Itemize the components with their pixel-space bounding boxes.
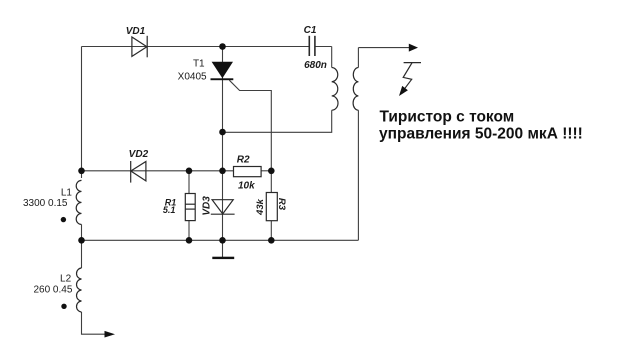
- svg-text:R2: R2: [237, 155, 250, 166]
- svg-text:43k: 43k: [255, 198, 266, 216]
- diode VD1: [132, 36, 147, 58]
- svg-text:R3: R3: [276, 198, 287, 211]
- capacitor C1: [309, 36, 315, 56]
- svg-text:5.1: 5.1: [163, 205, 176, 215]
- resistor R1: [185, 194, 195, 221]
- wire: top rail left of C1: [82, 46, 310, 48]
- wire: VD3 column: [222, 132, 224, 240]
- svg-text:X0405: X0405: [178, 72, 207, 83]
- transformer primary winding: [332, 68, 338, 111]
- svg-text:VD3: VD3: [201, 196, 212, 216]
- node: left rail / bottom rail: [78, 237, 85, 244]
- wire: middle rail left of R2: [82, 170, 234, 172]
- ground lead: [222, 240, 224, 257]
- svg-text:260 0.45: 260 0.45: [33, 285, 72, 296]
- wire: middle rail right of R2: [261, 170, 271, 172]
- wire: left rail upper segment: [81, 47, 83, 179]
- wire: top rail right of C1: [315, 46, 332, 48]
- wire: R3 leads: [270, 171, 272, 193]
- spark gap symbol (lightning): [403, 63, 421, 91]
- node: R3 top: [268, 168, 275, 175]
- wire: cathode node to transformer primary bottom: [223, 110, 332, 132]
- node: R1 bottom: [186, 237, 193, 244]
- svg-text:L2: L2: [60, 273, 72, 284]
- node: VD3 top: [219, 168, 226, 175]
- svg-text:T1: T1: [193, 58, 205, 69]
- wire: primary top lead: [331, 47, 333, 68]
- inductor L1: [76, 180, 81, 224]
- node: left rail / middle rail: [78, 168, 85, 175]
- svg-text:Тиристор с током: Тиристор с током: [380, 108, 515, 125]
- wire: spark output line: [358, 47, 409, 49]
- wire: secondary bottom lead to bottom rail: [357, 110, 359, 240]
- svg-text:C1: C1: [304, 25, 317, 36]
- svg-text:VD2: VD2: [129, 149, 149, 160]
- arrow: spark output: [409, 44, 418, 52]
- wire: thyristor gate: [229, 80, 271, 171]
- svg-text:3300 0.15: 3300 0.15: [23, 198, 68, 209]
- resistor R3: [266, 193, 277, 221]
- node: thyristor anode / top rail: [219, 43, 226, 50]
- transformer secondary winding: [353, 68, 358, 111]
- svg-text:10k: 10k: [238, 180, 255, 191]
- wire: left rail between L1 and L2: [81, 225, 83, 269]
- svg-text:680n: 680n: [304, 60, 327, 71]
- svg-text:VD1: VD1: [126, 26, 146, 37]
- polarity dot L2: [61, 304, 66, 309]
- svg-text:управления 50-200 мкА !!!!: управления 50-200 мкА !!!!: [379, 125, 583, 142]
- wire: left rail below L2 with corner: [82, 312, 105, 334]
- resistor R2: [234, 167, 262, 177]
- node: ground junction: [219, 237, 226, 244]
- node: R1 top: [186, 168, 193, 175]
- arrow: mains connection: [105, 331, 116, 338]
- zener diode VD3: [211, 200, 235, 215]
- ground: [212, 257, 234, 259]
- diode VD2: [131, 161, 146, 183]
- wire: secondary top lead: [357, 48, 359, 68]
- wire: bottom rail: [82, 239, 359, 241]
- node: R3 bottom: [268, 237, 275, 244]
- thyristor T1 body: [211, 62, 234, 80]
- polarity dot L1: [61, 217, 66, 222]
- inductor L2: [77, 268, 82, 312]
- wire: R1 leads: [188, 171, 190, 194]
- wire: thyristor column: [222, 47, 224, 133]
- node: cathode junction: [219, 129, 226, 136]
